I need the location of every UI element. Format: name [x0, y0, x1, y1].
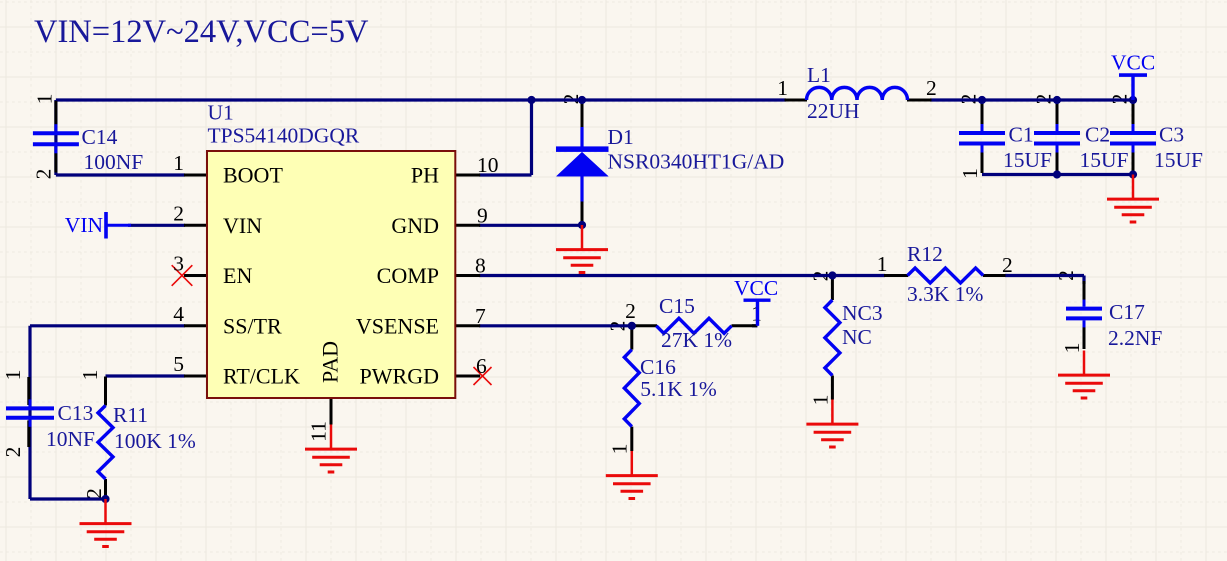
svg-text:L1: L1: [807, 63, 831, 87]
svg-text:1: 1: [877, 252, 888, 276]
svg-text:C15: C15: [659, 294, 695, 318]
svg-text:COMP: COMP: [377, 263, 439, 288]
svg-text:PH: PH: [411, 163, 439, 188]
svg-text:C17: C17: [1109, 300, 1145, 324]
svg-text:2: 2: [173, 201, 184, 225]
svg-text:1: 1: [33, 94, 57, 105]
svg-text:C13: C13: [58, 401, 94, 425]
svg-text:BOOT: BOOT: [223, 163, 283, 188]
svg-text:C14: C14: [82, 125, 118, 149]
svg-text:15UF: 15UF: [1080, 148, 1129, 172]
svg-text:15UF: 15UF: [1003, 148, 1052, 172]
svg-text:1: 1: [1, 370, 25, 381]
svg-text:RT/CLK: RT/CLK: [223, 364, 300, 389]
svg-text:NC3: NC3: [842, 301, 883, 325]
svg-text:10NF: 10NF: [46, 427, 95, 451]
svg-text:6: 6: [476, 354, 487, 378]
svg-text:2: 2: [926, 76, 937, 100]
svg-text:1: 1: [1060, 343, 1084, 354]
svg-text:D1: D1: [608, 125, 634, 149]
svg-text:15UF: 15UF: [1154, 148, 1203, 172]
svg-text:8: 8: [475, 254, 486, 278]
svg-text:2: 2: [32, 169, 56, 180]
svg-text:3.3K 1%: 3.3K 1%: [907, 282, 984, 306]
svg-text:2: 2: [625, 299, 636, 323]
svg-text:VIN: VIN: [65, 213, 104, 237]
svg-text:4: 4: [173, 302, 184, 326]
svg-text:2: 2: [1002, 253, 1013, 277]
svg-text:7: 7: [475, 304, 486, 328]
svg-text:GND: GND: [391, 213, 439, 238]
svg-text:1: 1: [809, 395, 833, 406]
svg-text:VIN: VIN: [223, 213, 262, 238]
svg-text:PAD: PAD: [318, 341, 343, 383]
svg-text:1: 1: [777, 76, 788, 100]
svg-text:27K 1%: 27K 1%: [661, 328, 732, 352]
svg-text:10: 10: [477, 153, 499, 177]
svg-text:22UH: 22UH: [807, 99, 860, 123]
svg-text:C2: C2: [1085, 123, 1110, 147]
svg-text:VCC: VCC: [1111, 51, 1155, 75]
svg-text:1: 1: [608, 444, 632, 455]
svg-text:NSR0340HT1G/AD: NSR0340HT1G/AD: [608, 150, 785, 174]
svg-text:C1: C1: [1009, 123, 1034, 147]
svg-text:VSENSE: VSENSE: [356, 313, 439, 338]
svg-text:SS/TR: SS/TR: [223, 313, 282, 338]
svg-text:1: 1: [958, 168, 982, 179]
svg-text:3: 3: [173, 252, 184, 276]
svg-text:5: 5: [173, 352, 184, 376]
svg-text:R12: R12: [907, 242, 943, 266]
svg-text:1: 1: [78, 370, 102, 381]
svg-text:NC: NC: [842, 325, 872, 349]
svg-text:TPS54140DGQR: TPS54140DGQR: [208, 124, 360, 148]
svg-text:2.2NF: 2.2NF: [1108, 326, 1162, 350]
svg-text:U1: U1: [208, 101, 234, 125]
svg-text:PWRGD: PWRGD: [360, 364, 439, 389]
svg-text:9: 9: [477, 203, 488, 227]
svg-text:VCC: VCC: [734, 276, 778, 300]
svg-text:5.1K 1%: 5.1K 1%: [640, 377, 717, 401]
svg-text:C3: C3: [1159, 123, 1184, 147]
svg-text:EN: EN: [223, 263, 252, 288]
svg-text:100NF: 100NF: [84, 150, 144, 174]
svg-text:C16: C16: [640, 355, 676, 379]
svg-text:1: 1: [173, 151, 184, 175]
svg-text:100K 1%: 100K 1%: [114, 429, 196, 453]
svg-text:2: 2: [1, 447, 25, 458]
svg-text:11: 11: [307, 421, 331, 442]
svg-text:VIN=12V~24V,VCC=5V: VIN=12V~24V,VCC=5V: [34, 14, 369, 50]
svg-text:R11: R11: [113, 403, 148, 427]
